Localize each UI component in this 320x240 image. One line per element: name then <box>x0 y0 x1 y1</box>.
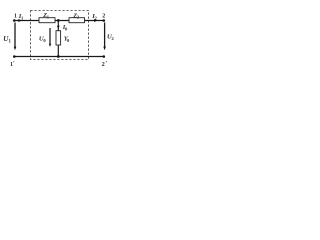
svg-text:2: 2 <box>102 14 105 20</box>
terminal 1 dot <box>13 19 16 22</box>
svg-text:1: 1 <box>14 14 17 20</box>
dashed two-port box <box>31 11 89 60</box>
terminal 2 dot <box>103 19 106 22</box>
voltage arrow U2 <box>104 23 106 48</box>
current arrow I1 on top wire <box>18 19 21 22</box>
bottom wire <box>14 56 104 58</box>
wire shunt link bottom <box>57 45 59 57</box>
top wire <box>14 20 104 22</box>
impedance Z2 box <box>69 18 85 23</box>
admittance Y0 box (shunt) <box>56 31 61 45</box>
node A top junction dot <box>57 19 60 22</box>
terminal 1' dot <box>13 55 16 58</box>
wire shunt link top <box>57 21 59 31</box>
terminal 2' dot <box>103 55 106 58</box>
voltage arrow U1 <box>14 23 16 48</box>
current arrow I2 on top wire <box>94 19 97 22</box>
voltage arrow U0 <box>49 28 51 45</box>
node B bottom junction dot <box>57 55 60 58</box>
current arrow I0 on shunt link <box>57 26 60 29</box>
svg-text:2: 2 <box>102 62 105 68</box>
impedance Z1 box <box>39 18 55 23</box>
